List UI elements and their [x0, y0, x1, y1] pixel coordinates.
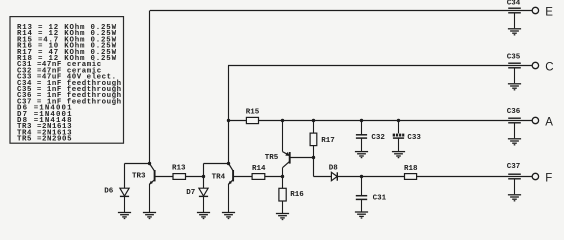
node TR4 collector junction [227, 162, 230, 165]
svg-text:R14: R14 [252, 165, 266, 173]
node TR5 emitter junction on row A [281, 119, 284, 122]
svg-text:C: C [545, 62, 553, 74]
capacitor C33 electrolytic [393, 121, 405, 152]
ground below R16 [276, 214, 289, 220]
ground below C37 [508, 195, 521, 201]
svg-text:D6: D6 [104, 188, 114, 196]
svg-text:R18: R18 [404, 165, 418, 173]
terminal C circle [532, 62, 538, 68]
wire TR3 collector to D6 branch [125, 164, 150, 189]
wire row A right segment [259, 120, 533, 122]
svg-text:C32: C32 [371, 134, 385, 142]
node row A start junction [227, 119, 230, 122]
svg-text:TR4: TR4 [212, 174, 226, 182]
svg-text:A: A [545, 117, 553, 129]
svg-text:R17: R17 [321, 137, 335, 145]
transistor TR4 [228, 164, 252, 213]
ground below C31 [355, 212, 368, 218]
svg-text:C31: C31 [373, 195, 387, 203]
svg-text:C34: C34 [507, 0, 521, 8]
svg-text:R15: R15 [246, 108, 260, 116]
wire R14 to TR5 collector node [265, 176, 283, 178]
svg-text:C35: C35 [507, 53, 521, 61]
diode D6 [120, 188, 129, 212]
svg-text:C37: C37 [507, 163, 521, 171]
ground below TR3 emitter [143, 213, 156, 219]
parts list box [10, 17, 124, 144]
wire R13 to node D7 [186, 176, 204, 178]
diode D8 [331, 172, 337, 180]
node R17 top junction on row A [312, 119, 315, 122]
node TR3 collector junction [148, 162, 151, 165]
node TR5 base / R17 bottom junction [312, 156, 315, 159]
node D8 / C31 junction [360, 175, 363, 178]
svg-text:TR5 =2N2905: TR5 =2N2905 [17, 136, 72, 144]
ground below C34 [508, 29, 521, 35]
resistor R13 [173, 174, 186, 180]
wire node down to D7 [203, 177, 205, 189]
svg-text:R16: R16 [290, 191, 304, 199]
ground below C33 [392, 152, 405, 158]
svg-text:D8: D8 [329, 164, 339, 172]
svg-text:TR5: TR5 [265, 154, 279, 162]
diode D7 [199, 188, 208, 212]
ground below C32 [355, 152, 368, 158]
ground below C35 [508, 84, 521, 90]
capacitor C32 [356, 121, 367, 152]
ground below D7 [197, 213, 210, 219]
capacitor C36 feedthrough [508, 118, 521, 138]
resistor R17 [310, 121, 317, 158]
svg-text:C36: C36 [507, 108, 521, 116]
resistor R14 [252, 174, 265, 180]
node R13/D7/TR4 junction [202, 175, 205, 178]
node C32 junction on row A [360, 119, 363, 122]
svg-text:D7: D7 [186, 189, 195, 197]
wire node up to TR4 collector [204, 164, 229, 177]
capacitor C31 [356, 177, 367, 212]
ground below C36 [508, 139, 521, 145]
transistor TR3 [149, 164, 173, 213]
terminal F circle [532, 173, 538, 179]
wire TR3 collector vertical [149, 11, 151, 164]
capacitor C35 feedthrough [508, 63, 521, 83]
resistor R15 [246, 117, 258, 123]
transistor TR5 [283, 121, 314, 177]
svg-text:E: E [545, 7, 553, 19]
svg-text:R13: R13 [172, 165, 186, 173]
wire row F after R18 to terminal F [417, 176, 533, 178]
wire row C horizontal [228, 65, 532, 67]
terminal A circle [532, 117, 538, 123]
ground below TR4 emitter [222, 213, 235, 219]
wire row F right segment D8 to R18 [337, 176, 404, 178]
parts list text [17, 24, 121, 144]
wire row E horizontal [150, 10, 532, 12]
resistor R18 [405, 174, 417, 180]
svg-text:F: F [545, 173, 552, 185]
node TR5 collector / R16 junction [281, 175, 284, 178]
wire R17 bottom down and right to D8 [314, 158, 332, 177]
node C33 junction on row A [397, 119, 400, 122]
wire TR4 collector vertical [228, 66, 230, 164]
terminal E circle [532, 7, 538, 13]
resistor R16 [279, 177, 286, 214]
wire row A left segment [229, 120, 247, 122]
svg-text:C33: C33 [407, 134, 421, 142]
capacitor C37 feedthrough [508, 174, 521, 194]
svg-text:TR3: TR3 [132, 172, 146, 180]
ground below D6 [118, 213, 131, 219]
capacitor C34 feedthrough [508, 8, 521, 28]
